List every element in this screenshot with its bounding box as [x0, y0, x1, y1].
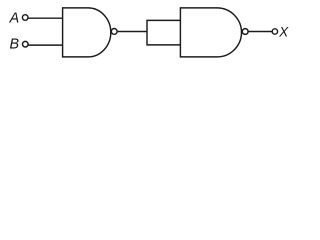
svg-text:B: B — [10, 36, 20, 52]
svg-text:A: A — [9, 10, 20, 26]
svg-text:X: X — [278, 25, 289, 40]
